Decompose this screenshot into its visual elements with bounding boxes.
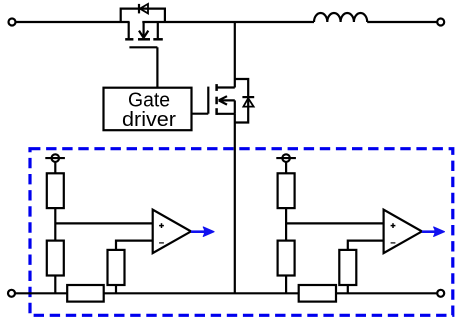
wire: R3 to ground rail [115, 285, 117, 293]
wire: T1 to R1 [54, 162, 56, 173]
op-amp U3 minus input mark [391, 242, 396, 244]
shunt resistor RS1 [67, 285, 104, 302]
diode D1 (Q1 body diode) [121, 4, 165, 22]
ground rail [16, 292, 437, 294]
op-amp U3 [384, 210, 422, 253]
resistor R5 [278, 241, 295, 276]
transistor Q1 (high-side MOSFET) [125, 22, 163, 47]
wire: R1 to R2 through node A [54, 208, 56, 241]
sense output 1 arrow [191, 227, 214, 236]
shunt resistor RS2 [299, 285, 336, 302]
wire: R5 to ground rail [285, 276, 287, 294]
sense terminal T1 [45, 154, 65, 162]
resistor R1 [47, 173, 64, 208]
transistor Q2 (low-side MOSFET) [208, 84, 235, 115]
ground terminal (bottom left) [8, 290, 15, 297]
resistor R3 [108, 250, 125, 285]
current sense block boundary (dashed box) [30, 149, 453, 316]
wire: node B to op-amp U3 + input [286, 222, 384, 224]
output terminal [437, 19, 444, 26]
op-amp U2 [153, 210, 191, 253]
op-amp U3 plus input mark [391, 223, 396, 228]
sense terminal T2 [276, 154, 296, 162]
wire: Q1 source to switch node and inductor [142, 21, 314, 23]
wire: Q1 gate to gate driver [156, 47, 158, 87]
wire: switch node vertical to Q2 drain [234, 22, 236, 88]
output return terminal (bottom right) [437, 290, 444, 297]
wire: R2 to ground rail [54, 276, 56, 294]
wire: gate driver to Q2 gate [192, 113, 209, 115]
op-amp U2 minus input mark [159, 242, 164, 244]
diode D2 (Q2 body diode) [235, 79, 254, 123]
wire: Q2 source to ground rail [234, 114, 236, 293]
input terminal [9, 19, 16, 26]
resistor R4 [278, 173, 295, 208]
wire: R6 to ground rail [347, 285, 349, 293]
inductor L1 [314, 13, 367, 22]
resistor R2 [47, 241, 64, 276]
sense output 2 arrow [422, 227, 445, 236]
wire: T2 to R4 [285, 162, 287, 173]
resistor R6 [339, 250, 356, 285]
op-amp U2 plus input mark [159, 223, 164, 228]
wire: R3 to op-amp U2 - input [116, 241, 153, 250]
svg-text:driver: driver [122, 109, 176, 131]
wire: R6 to op-amp U3 - input [348, 241, 384, 250]
gate driver U1 [104, 88, 192, 131]
wire: input terminal to Q1 drain [16, 21, 130, 23]
wire: R4 to R5 through node B [285, 208, 287, 241]
wire: inductor to output terminal [367, 21, 437, 23]
wire: node A to op-amp U2 + input [55, 222, 152, 224]
